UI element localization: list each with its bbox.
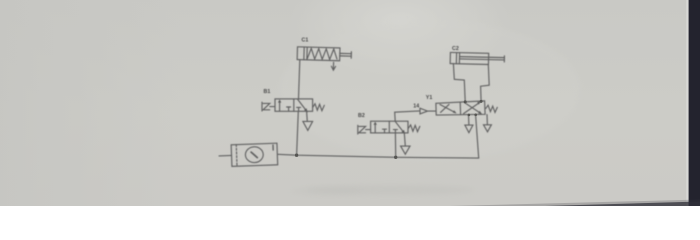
svg-text:B1: B1 xyxy=(264,89,271,95)
svg-text:Y1: Y1 xyxy=(426,95,433,101)
svg-text:B2: B2 xyxy=(358,113,365,119)
svg-text:14: 14 xyxy=(413,104,419,110)
svg-text:C1: C1 xyxy=(302,37,309,43)
svg-text:C2: C2 xyxy=(452,46,459,52)
